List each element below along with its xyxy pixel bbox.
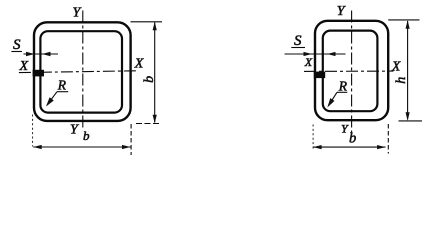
right h dimension bottom extension	[399, 120, 422, 122]
right Y-Y centerline	[351, 11, 353, 134]
left b vertical top arrowhead	[153, 22, 157, 31]
svg-text:R: R	[57, 78, 67, 93]
right h bottom arrowhead	[406, 112, 410, 121]
svg-text:h: h	[394, 77, 409, 84]
svg-text:X: X	[304, 55, 313, 69]
right section mark (blackened wall)	[314, 72, 325, 79]
right R leader line	[329, 92, 338, 105]
left S dimension arrow line	[24, 53, 59, 55]
left b vertical dimension top extension	[131, 21, 163, 23]
right S outside arrowhead	[304, 52, 313, 56]
left b vertical dimension bottom extension (dash-dot)	[136, 123, 161, 125]
left S inside arrowhead	[42, 52, 51, 56]
left b vertical dimension line	[154, 23, 156, 123]
right S label underline	[291, 47, 305, 49]
svg-text:R: R	[338, 78, 348, 93]
right b horizontal left extension (dotted)	[312, 125, 314, 151]
svg-text:S: S	[13, 37, 21, 53]
left S outside arrowhead	[26, 52, 35, 56]
svg-text:X: X	[19, 59, 29, 74]
right S dimension arrow line	[285, 53, 346, 55]
left R label underline	[57, 91, 68, 93]
left b vertical bottom arrowhead	[153, 115, 157, 124]
svg-text:X: X	[134, 57, 144, 72]
left tube outer contour	[34, 22, 131, 121]
right h dimension line	[407, 21, 409, 120]
right b horizontal dimension line	[313, 146, 385, 148]
left Y-Y centerline	[82, 11, 84, 130]
left b horizontal right arrowhead	[122, 145, 131, 149]
right tube inner contour	[323, 31, 378, 112]
right tube outer contour	[315, 21, 388, 120]
svg-text:b: b	[142, 76, 157, 83]
right h top arrowhead	[406, 20, 410, 29]
left b horizontal left arrowhead	[33, 145, 42, 149]
svg-text:S: S	[294, 33, 302, 49]
left section mark (blackened wall)	[33, 70, 44, 77]
left R arrowhead	[46, 97, 54, 106]
right S inside arrowhead	[327, 52, 336, 56]
svg-text:Y: Y	[341, 121, 349, 135]
svg-text:b: b	[83, 128, 90, 143]
right b right arrowhead	[377, 145, 386, 149]
right R label underline	[337, 91, 347, 93]
left tube inner contour	[40, 31, 122, 112]
right h dimension top extension	[388, 19, 419, 21]
left b horizontal left extension (dotted)	[32, 115, 34, 147]
right b left arrowhead	[313, 145, 322, 149]
right X-X centerline	[304, 70, 394, 72]
right b horizontal right extension	[387, 124, 389, 154]
left S label underline	[11, 51, 22, 53]
svg-text:b: b	[349, 131, 356, 147]
left X-X centerline	[19, 71, 137, 73]
svg-text:Y: Y	[337, 4, 347, 19]
left b horizontal right extension	[130, 124, 132, 155]
right R arrowhead	[327, 98, 334, 107]
svg-text:Y: Y	[73, 6, 83, 21]
left b horizontal dimension line	[33, 146, 130, 148]
svg-text:X: X	[391, 59, 401, 74]
svg-text:Y: Y	[70, 123, 80, 138]
left R leader line	[47, 92, 57, 106]
